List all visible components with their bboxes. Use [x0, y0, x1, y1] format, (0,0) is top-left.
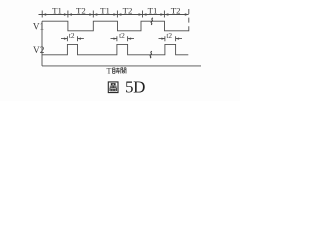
extension tick x=164.4: [163, 11, 165, 18]
extension tick x=142.5: [142, 11, 144, 18]
axis time horizontal: [42, 65, 201, 67]
extension tick x=117.4: [116, 11, 118, 18]
arrowheads t2 pulse2: [113, 38, 117, 40]
svg-text:T1: T1: [148, 6, 158, 16]
t2 dimension tails pulse2: [111, 38, 135, 40]
arrowheads T1 span1: [42, 13, 46, 15]
glyph 圖 (figure): [108, 82, 118, 93]
arrowheads T1 span3: [93, 13, 97, 15]
waveform V1: [42, 21, 189, 31]
extension tick x=67.9: [67, 11, 69, 18]
break squiggle on V2 baseline: [150, 51, 152, 58]
arrowheads T2 span4: [117, 13, 121, 15]
svg-text:V1: V1: [33, 23, 45, 33]
svg-text:T1: T1: [100, 6, 110, 16]
axis vertical left: [41, 21, 43, 66]
dimension line top: [39, 14, 189, 16]
arrowheads t2 pulse1: [64, 38, 68, 40]
dashed cut line right: [188, 9, 190, 31]
svg-text:T2: T2: [76, 6, 86, 16]
svg-text:5D: 5D: [125, 77, 145, 96]
glyph 時 (time): [113, 68, 115, 74]
svg-text:T2: T2: [171, 6, 181, 16]
extension tick x=42.2: [41, 11, 43, 18]
svg-text:V2: V2: [33, 46, 45, 56]
svg-text:t2: t2: [69, 31, 75, 40]
t2 dimension ticks pulse2: [117, 36, 128, 41]
glyph 間 (interval): [121, 68, 126, 74]
t2 dimension ticks pulse1: [67, 36, 77, 41]
t2 dimension ticks pulse3: [165, 36, 176, 41]
svg-text:T: T: [107, 66, 112, 75]
svg-text:t2: t2: [166, 31, 172, 40]
arrowheads t2 pulse3: [161, 38, 165, 40]
svg-text:T1: T1: [52, 6, 62, 16]
arrowheads T2 span2: [68, 13, 72, 15]
t2 dimension tails pulse1: [61, 38, 84, 40]
arrowheads T2 span6: [164, 13, 168, 15]
arrowheads T1 span5: [143, 13, 147, 15]
svg-text:T2: T2: [123, 6, 133, 16]
extension tick x=93.3: [92, 11, 94, 18]
break squiggle on V1 high line: [151, 18, 153, 25]
svg-text:t2: t2: [119, 31, 125, 40]
waveform V2: [42, 44, 188, 54]
t2 dimension tails pulse3: [159, 38, 183, 40]
